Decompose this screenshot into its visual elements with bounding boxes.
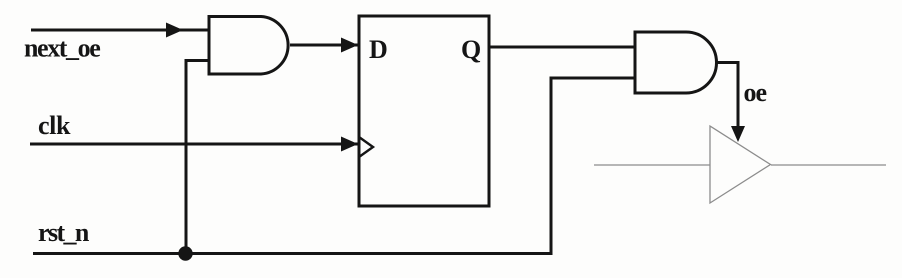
svg-text:next_oe: next_oe bbox=[24, 34, 100, 63]
wire AND1 output to D input bbox=[290, 44, 358, 47]
wire clk to flip-flop clock bbox=[30, 143, 358, 146]
arrowhead oe pointing down bbox=[731, 126, 745, 142]
wire next_oe input to AND gate top input bbox=[31, 29, 209, 32]
svg-text:D: D bbox=[369, 35, 388, 64]
wire AND2 output to oe arrow bbox=[717, 63, 739, 130]
svg-text:oe: oe bbox=[744, 78, 767, 107]
svg-text:rst_n: rst_n bbox=[38, 218, 90, 247]
wire bus line through tri-state buffer (thin) bbox=[594, 164, 710, 166]
svg-text:Q: Q bbox=[461, 35, 481, 64]
AND gate U3 (right) bbox=[635, 32, 716, 93]
wire rst_n net bbox=[33, 78, 635, 254]
wire buffer output line (thin) bbox=[771, 164, 886, 166]
clock wedge symbol bbox=[359, 137, 373, 157]
arrowhead at D input bbox=[341, 38, 358, 53]
svg-text:clk: clk bbox=[38, 111, 71, 140]
junction dot on rst_n bbox=[178, 246, 192, 260]
wire Q output to AND2 upper input bbox=[489, 46, 635, 49]
arrowhead at clock input bbox=[341, 137, 358, 152]
AND gate U1 (left) bbox=[209, 17, 288, 75]
D flip-flop U2 bbox=[359, 16, 489, 206]
arrowhead on next_oe wire bbox=[166, 23, 183, 38]
tri-state buffer U4 bbox=[710, 126, 771, 203]
wire AND1 lower input stub bbox=[186, 61, 209, 254]
